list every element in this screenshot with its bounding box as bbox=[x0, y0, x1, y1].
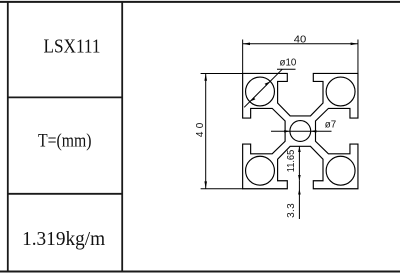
dim 11.65 line bbox=[298, 146, 300, 180]
extrusion profile outline bbox=[243, 73, 358, 188]
corner hole circle bottom-left bbox=[246, 156, 275, 185]
dia10 landing line bbox=[277, 68, 296, 70]
table right vertical line bbox=[121, 1, 123, 273]
dia10 leader diagonal bbox=[244, 69, 282, 107]
dim 3.3 arrow up at bottom face bbox=[298, 189, 301, 195]
svg-text:11.65: 11.65 bbox=[286, 149, 297, 172]
top dim extension line left bbox=[242, 40, 244, 74]
dia7 leader line bbox=[271, 130, 332, 132]
dim 11.65 arrow up bbox=[298, 146, 301, 152]
svg-text:3.3: 3.3 bbox=[286, 203, 297, 218]
dim 11.65 arrow down bbox=[298, 175, 301, 181]
table left vertical line bbox=[7, 1, 9, 273]
svg-text:T=(mm): T=(mm) bbox=[38, 131, 92, 152]
corner hole circle top-right bbox=[326, 77, 355, 106]
table bottom border bbox=[0, 271, 400, 273]
svg-text:ø7: ø7 bbox=[325, 120, 337, 131]
svg-text:40: 40 bbox=[294, 35, 307, 46]
center hole circle bbox=[290, 121, 311, 142]
dia10 arrow lower-left bbox=[250, 97, 255, 101]
left dim extension line top bbox=[201, 72, 243, 74]
top dim extension line right bbox=[357, 40, 359, 74]
dia7 arrow left bbox=[284, 130, 290, 133]
top dim arrow right bbox=[351, 43, 358, 46]
left dimension line 40 bbox=[205, 73, 207, 188]
svg-text:1.319kg/m: 1.319kg/m bbox=[22, 228, 105, 250]
corner hole circle top-left bbox=[246, 77, 275, 106]
table top border bbox=[0, 1, 400, 3]
left dim arrow top bbox=[204, 73, 207, 80]
svg-text:LSX111: LSX111 bbox=[44, 36, 101, 58]
top dimension line 40 bbox=[243, 43, 358, 45]
dim 3.3 line below profile bbox=[298, 181, 300, 219]
corner hole circle bottom-right bbox=[326, 156, 355, 185]
dia10 arrow upper-right bbox=[265, 82, 270, 86]
table row divider 2 bbox=[7, 193, 123, 195]
top dim arrow left bbox=[243, 43, 250, 46]
dia7 arrow right bbox=[311, 130, 317, 133]
svg-text:ø10: ø10 bbox=[280, 57, 297, 68]
left dim extension line bottom bbox=[201, 188, 243, 190]
left dim arrow bottom bbox=[204, 181, 207, 188]
table row divider 1 bbox=[7, 96, 123, 98]
